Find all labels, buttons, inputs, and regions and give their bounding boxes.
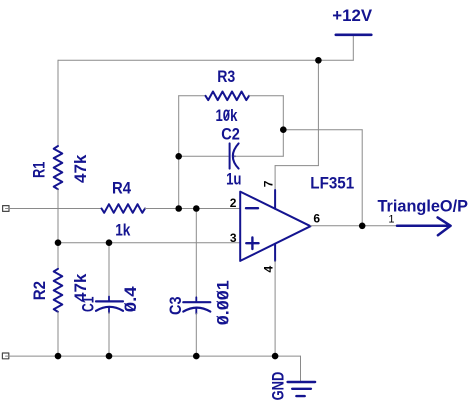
svg-text:C2: C2 xyxy=(221,125,240,144)
svg-text:4: 4 xyxy=(262,266,276,273)
wire output xyxy=(311,225,398,227)
wire left rail lower xyxy=(57,312,59,356)
wire pin4 to ground rail xyxy=(274,261,276,356)
svg-text:TriangleO/P: TriangleO/P xyxy=(378,196,469,215)
wire C3 lower stem xyxy=(195,313,197,356)
resistor R4 xyxy=(102,179,146,213)
junction bottom rail pin4 xyxy=(272,353,279,360)
junction top rail / supply drop xyxy=(315,57,322,64)
junction output node xyxy=(359,223,366,230)
wire left rail upper xyxy=(57,60,59,146)
svg-text:1u: 1u xyxy=(226,170,241,189)
svg-text:R2: R2 xyxy=(30,281,49,300)
junction bottom rail C3 xyxy=(193,353,200,360)
wire C2 left lead xyxy=(179,155,229,157)
wire feedback loop right vertical xyxy=(282,96,284,157)
wire R4 to pin2 xyxy=(145,208,240,210)
wire top rail xyxy=(58,59,353,61)
R3 value 10k xyxy=(216,106,238,125)
wire supply drop vertical xyxy=(317,60,319,165)
svg-text:0.4: 0.4 xyxy=(121,286,140,313)
ground GND xyxy=(269,372,316,401)
wire feedback to output vertical xyxy=(361,130,363,226)
power +12V xyxy=(332,6,372,35)
capacitor C1 xyxy=(79,297,124,314)
svg-text:7: 7 xyxy=(261,180,275,187)
svg-text:R3: R3 xyxy=(217,67,235,86)
svg-text:C3: C3 xyxy=(166,297,185,316)
capacitor C2 xyxy=(221,125,240,169)
svg-text:2: 2 xyxy=(230,196,237,210)
junction loop bottom / R4 net xyxy=(175,205,182,212)
svg-text:3: 3 xyxy=(230,231,237,245)
svg-text:+12V: +12V xyxy=(332,6,372,25)
wire supply to pin7 xyxy=(274,166,276,190)
wire left rail middle xyxy=(57,189,59,268)
wire +12V stem xyxy=(352,36,354,60)
junction feedback tap xyxy=(280,126,287,133)
output port TriangleO/P xyxy=(378,196,469,235)
svg-text:1k: 1k xyxy=(115,220,131,239)
wire C3 upper stem xyxy=(195,209,197,298)
C1 value 0.4 xyxy=(121,286,140,313)
junction bottom rail C1 xyxy=(106,353,113,360)
junction rail / lower net xyxy=(55,239,62,246)
wire C1 upper stem xyxy=(108,243,110,297)
svg-text:6: 6 xyxy=(313,212,320,226)
port input lower xyxy=(2,353,8,359)
svg-text:GND: GND xyxy=(269,372,288,401)
resistor R2 xyxy=(30,269,62,312)
wire supply jog horizontal xyxy=(275,165,318,167)
svg-text:1: 1 xyxy=(388,214,394,226)
wire feedback to output horizontal xyxy=(283,129,362,131)
wire R3 right lead xyxy=(249,95,283,97)
resistor R3 xyxy=(206,67,250,100)
svg-text:47k: 47k xyxy=(71,154,90,183)
svg-text:C1: C1 xyxy=(79,297,98,312)
capacitor C3 xyxy=(166,297,210,316)
wire C1 lower stem xyxy=(108,313,110,357)
wire ground jog xyxy=(300,356,302,381)
resistor R1 xyxy=(30,146,63,189)
wire C2 right lead xyxy=(234,155,283,157)
wire input to R4 xyxy=(6,208,102,210)
junction bottom rail R2 xyxy=(55,353,62,360)
junction C2 left xyxy=(175,153,182,160)
wire bottom rail xyxy=(6,355,301,357)
wire R3 left lead xyxy=(179,95,206,97)
port input upper xyxy=(3,206,9,212)
svg-text:R1: R1 xyxy=(30,162,49,178)
wire feedback loop left vertical xyxy=(178,96,180,209)
wire lower net to pin3 xyxy=(58,242,240,244)
svg-text:0.001: 0.001 xyxy=(213,280,232,325)
C3 value 0.001 xyxy=(213,280,232,325)
junction C3 top xyxy=(193,205,200,212)
junction C1 top xyxy=(106,239,113,246)
op-amp U1 LF351 xyxy=(240,173,354,261)
svg-text:R4: R4 xyxy=(112,179,131,198)
svg-text:LF351: LF351 xyxy=(310,173,354,192)
